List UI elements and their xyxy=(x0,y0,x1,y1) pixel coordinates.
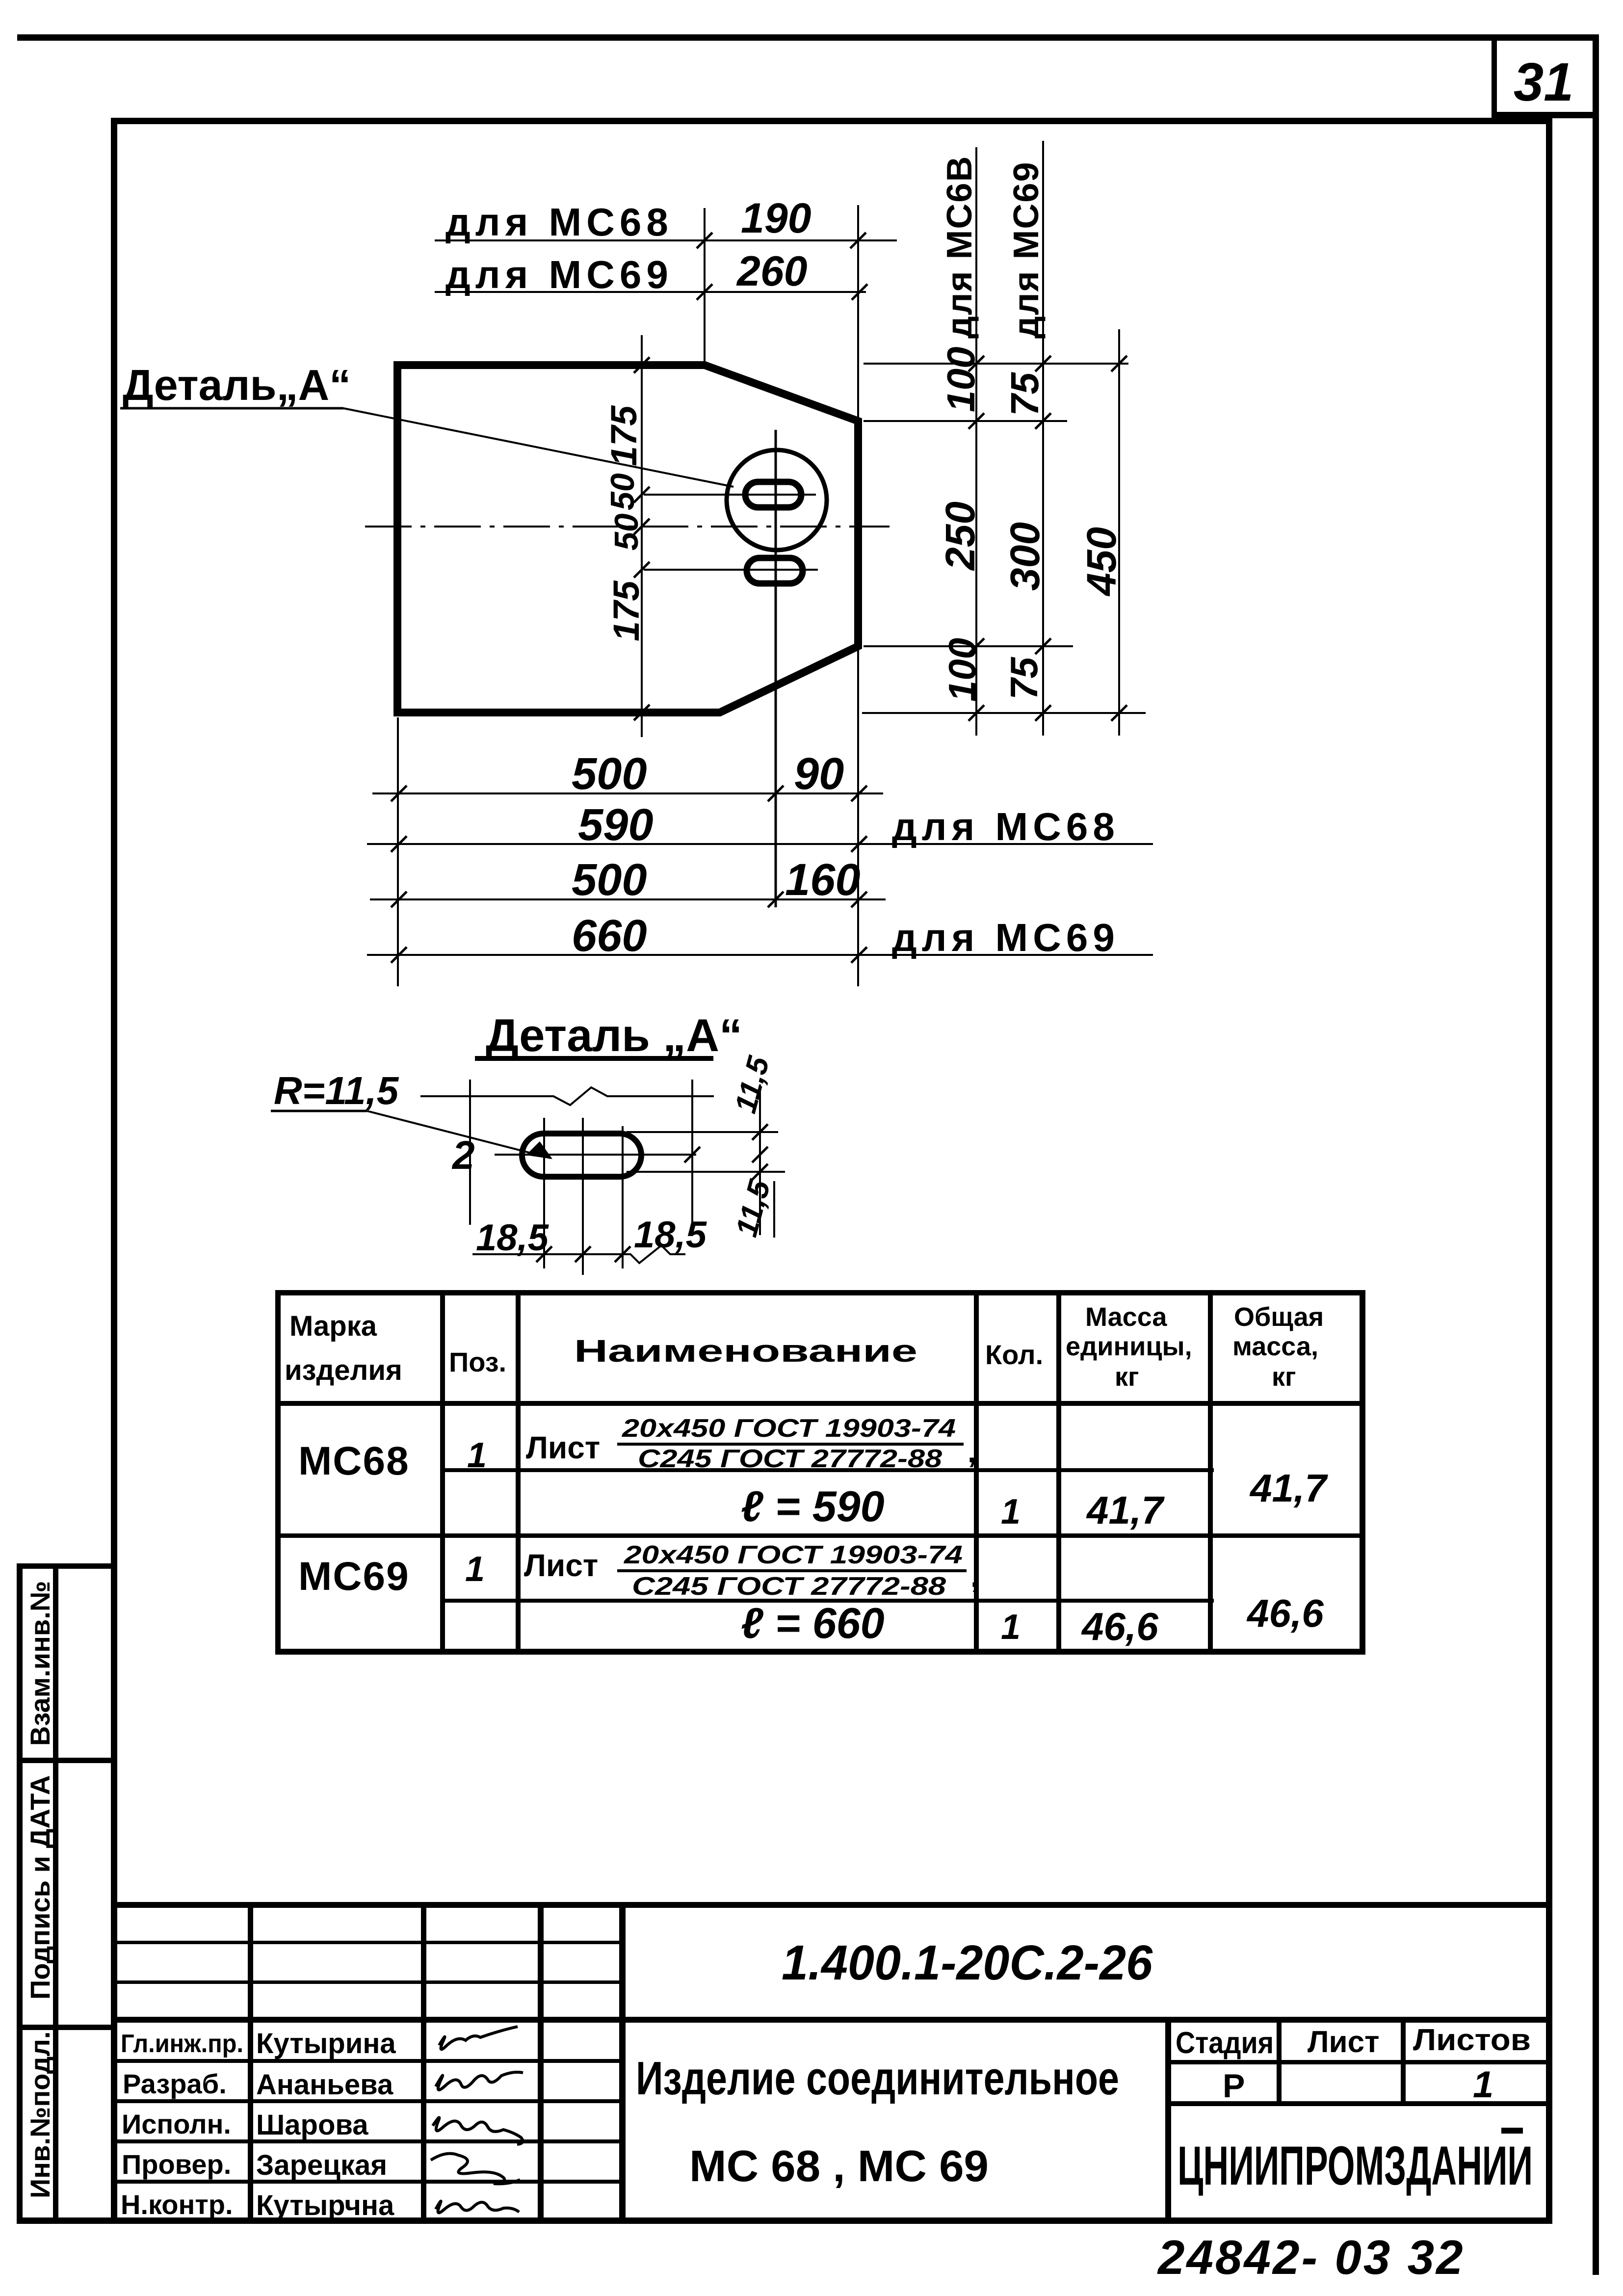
svg-text:500: 500 xyxy=(572,749,647,799)
svg-text:175: 175 xyxy=(603,405,644,466)
fraction bar МС69 xyxy=(617,1569,967,1572)
upper slot extension line xyxy=(644,494,816,496)
right dim line МС69 column xyxy=(1042,141,1044,736)
employee row line 4 xyxy=(117,2180,623,2184)
svg-text:изделия: изделия xyxy=(285,1354,402,1386)
table row line l=590 bottom xyxy=(275,1533,1365,1538)
detail top dim line with break xyxy=(420,1087,714,1105)
right dim line МС68 column xyxy=(975,147,977,736)
lower slot extension line xyxy=(644,569,818,571)
stage row bottom line xyxy=(1168,2101,1546,2106)
extension line right edge up xyxy=(857,205,859,421)
svg-text:46,6: 46,6 xyxy=(1246,1591,1324,1635)
svg-text:Гл.инж.пр.: Гл.инж.пр. xyxy=(121,2030,243,2058)
detail vertical line left arc center xyxy=(543,1118,545,1268)
svg-text:Стадия: Стадия xyxy=(1176,2026,1274,2060)
svg-text:20х450 ГОСТ 19903-74: 20х450 ГОСТ 19903-74 xyxy=(622,1414,956,1443)
svg-text:100: 100 xyxy=(939,347,983,412)
svg-text:Масса: Масса xyxy=(1085,1302,1167,1332)
main frame top xyxy=(111,118,1552,124)
internal vertical dimension line xyxy=(641,335,643,737)
svg-text:46,6: 46,6 xyxy=(1081,1605,1158,1648)
svg-text:ℓ = 660: ℓ = 660 xyxy=(741,1599,885,1647)
svg-text:41,7: 41,7 xyxy=(1086,1488,1165,1532)
right extension line top edge xyxy=(864,363,1128,365)
svg-text:МС 68 , МС 69: МС 68 , МС 69 xyxy=(689,2142,989,2191)
table column Наименование|Кол xyxy=(974,1290,979,1655)
title block thin row line 2 xyxy=(117,1980,623,1984)
right extension line bevel end xyxy=(864,420,1067,422)
svg-text:1: 1 xyxy=(467,1436,487,1475)
svg-text:Марка: Марка xyxy=(289,1310,377,1342)
title block vertical divider names|signatures xyxy=(421,1905,426,2220)
right extension line bottom edge xyxy=(862,712,1146,714)
vertical slot axis line xyxy=(775,430,777,907)
svg-text:Кутырчна: Кутырчна xyxy=(256,2190,394,2221)
signature 1 xyxy=(439,2027,518,2049)
employee row line 2 xyxy=(117,2099,623,2103)
detail right ext line slot bottom xyxy=(627,1171,785,1173)
svg-text:Изделие соединительное: Изделие соединительное xyxy=(636,2052,1119,2105)
underline of lower 11,5 xyxy=(773,1181,775,1238)
svg-text:250: 250 xyxy=(937,501,983,571)
table column Поз|Наименование xyxy=(516,1290,521,1655)
svg-text:31: 31 xyxy=(1514,52,1573,112)
svg-text:Ананьева: Ананьева xyxy=(256,2069,393,2101)
title block vertical divider signatures|dates xyxy=(538,1905,544,2220)
leader line to circle xyxy=(343,408,733,487)
svg-text:2: 2 xyxy=(451,1133,475,1178)
svg-text:Листов: Листов xyxy=(1413,2023,1531,2057)
svg-text:Провер.: Провер. xyxy=(122,2149,231,2180)
svg-text:Деталь„А“: Деталь„А“ xyxy=(123,361,351,409)
svg-text:Взам.инв.№: Взам.инв.№ xyxy=(25,1581,55,1746)
detail title underline xyxy=(475,1056,713,1061)
svg-text:590: 590 xyxy=(578,800,654,850)
svg-text:R=11,5: R=11,5 xyxy=(274,1069,399,1112)
table column Кол|Масса xyxy=(1056,1290,1061,1655)
svg-text:660: 660 xyxy=(572,911,647,961)
title block vertical divider roles|names xyxy=(248,1905,253,2220)
detail vertical line slot center xyxy=(582,1118,584,1275)
detail right extension line xyxy=(691,1080,693,1222)
svg-text:кг: кг xyxy=(1272,1362,1296,1392)
detail A circle xyxy=(727,450,827,550)
svg-text:1.400.1-20С.2-26: 1.400.1-20С.2-26 xyxy=(782,1935,1153,1990)
svg-text:20х450 ГОСТ 19903-74: 20х450 ГОСТ 19903-74 xyxy=(624,1541,963,1569)
svg-text:,: , xyxy=(970,1558,979,1594)
svg-text:Исполн.: Исполн. xyxy=(122,2109,231,2139)
svg-text:,: , xyxy=(968,1434,976,1469)
svg-text:50: 50 xyxy=(608,513,645,551)
svg-text:500: 500 xyxy=(572,855,647,905)
upper slot hole xyxy=(745,482,801,507)
stage box divider Изделие|Стадия xyxy=(1165,2017,1171,2220)
bottom extension line left edge xyxy=(397,717,399,986)
table outer bottom xyxy=(275,1649,1365,1655)
bottom dim line 660 xyxy=(367,954,1153,956)
svg-text:ЦНИИПРОМЗДАНИИ: ЦНИИПРОМЗДАНИИ xyxy=(1178,2135,1533,2196)
svg-text:1: 1 xyxy=(1473,2064,1493,2106)
svg-text:1: 1 xyxy=(1001,1608,1021,1647)
left column top edge xyxy=(17,1563,117,1569)
svg-text:для МС68: для МС68 xyxy=(445,200,673,244)
svg-text:260: 260 xyxy=(736,248,808,295)
top dim line для МС68 190 xyxy=(435,239,897,241)
svg-text:Лист: Лист xyxy=(524,1548,598,1583)
svg-text:100: 100 xyxy=(941,638,984,702)
detail slot horizontal centerline xyxy=(495,1154,696,1156)
svg-text:для МС69: для МС69 xyxy=(892,916,1120,959)
svg-text:160: 160 xyxy=(785,855,861,905)
designation box left edge xyxy=(619,1905,626,2220)
signature 2 xyxy=(436,2072,523,2090)
svg-text:300: 300 xyxy=(1002,522,1048,591)
table column Марка|Поз xyxy=(440,1290,445,1655)
svg-text:Н.контр.: Н.контр. xyxy=(121,2189,233,2220)
signature 4 xyxy=(431,2154,520,2184)
R label underline xyxy=(271,1110,367,1112)
svg-text:кг: кг xyxy=(1115,1362,1139,1392)
table header bottom line xyxy=(275,1401,1365,1406)
svg-text:С245 ГОСТ 27772-88: С245 ГОСТ 27772-88 xyxy=(632,1572,946,1601)
left column outer left edge xyxy=(17,1563,23,2224)
svg-text:для МС68: для МС68 xyxy=(892,805,1120,848)
main frame left xyxy=(111,118,117,2224)
svg-text:1: 1 xyxy=(465,1550,485,1589)
stage header bottom line xyxy=(1168,2060,1546,2064)
svg-text:Разраб.: Разраб. xyxy=(123,2068,227,2099)
svg-text:МС69: МС69 xyxy=(298,1554,410,1599)
svg-text:190: 190 xyxy=(741,195,811,242)
left column divider horizontal 1 xyxy=(17,1758,117,1763)
svg-text:41,7: 41,7 xyxy=(1249,1466,1328,1510)
detail right dim line 11,5 xyxy=(759,1084,761,1235)
svg-text:Лист: Лист xyxy=(526,1430,600,1465)
svg-text:Подпись и ДАТА: Подпись и ДАТА xyxy=(25,1775,55,2000)
svg-text:для МС6В: для МС6В xyxy=(940,156,979,339)
page number box 31 bottom edge xyxy=(1492,112,1599,118)
table partial row line MC69 xyxy=(443,1599,1214,1603)
svg-text:единицы,: единицы, xyxy=(1066,1332,1192,1361)
bottom dim line 590 xyxy=(367,843,1153,845)
detail slot xyxy=(522,1134,641,1177)
employee row line 1 xyxy=(117,2059,623,2063)
table outer top xyxy=(275,1290,1365,1295)
title block line under designation box xyxy=(117,2017,1546,2023)
horizontal centerline xyxy=(365,526,890,528)
svg-text:МС68: МС68 xyxy=(298,1439,410,1483)
table column Масса|Общая xyxy=(1208,1290,1213,1655)
top page border line xyxy=(17,34,1598,41)
title block top line xyxy=(117,1902,1546,1908)
svg-text:450: 450 xyxy=(1078,527,1125,597)
table outer right xyxy=(1360,1290,1365,1655)
bottom dim line 500 90 xyxy=(372,792,883,794)
main frame bottom xyxy=(17,2217,1552,2224)
right page border line xyxy=(1593,34,1599,2275)
svg-text:24842- 03 32: 24842- 03 32 xyxy=(1157,2230,1465,2284)
detail right ext line slot top xyxy=(627,1131,778,1133)
left column inner divider vertical xyxy=(53,1563,58,2224)
bottom dim line 500 160 xyxy=(370,898,886,900)
stage box divider Лист|Листов xyxy=(1401,2017,1406,2105)
svg-text:ℓ = 590: ℓ = 590 xyxy=(741,1482,885,1531)
detail vertical line right arc center xyxy=(622,1126,624,1268)
svg-text:С245 ГОСТ 27772-88: С245 ГОСТ 27772-88 xyxy=(638,1445,942,1473)
signature 3 xyxy=(433,2117,523,2144)
svg-text:Инв.№подл.: Инв.№подл. xyxy=(25,2032,55,2198)
svg-text:90: 90 xyxy=(794,749,844,799)
svg-text:Кол.: Кол. xyxy=(985,1339,1043,1370)
stage box divider Стадия|Лист xyxy=(1277,2017,1282,2105)
svg-text:Зарецкая: Зарецкая xyxy=(256,2149,387,2181)
table partial row line MC68 xyxy=(443,1468,1214,1472)
top dim line для МС69 260 xyxy=(435,291,866,293)
ticks on internal dim line xyxy=(634,357,650,373)
detail left extension line xyxy=(469,1080,471,1225)
svg-text:Лист: Лист xyxy=(1308,2025,1379,2059)
svg-text:для МС69: для МС69 xyxy=(445,253,673,296)
R leader line with arrow xyxy=(367,1111,550,1158)
svg-text:75: 75 xyxy=(1003,372,1047,416)
svg-text:175: 175 xyxy=(606,580,647,641)
table outer left xyxy=(275,1290,281,1655)
detail bottom dim line with break xyxy=(472,1245,685,1263)
signature 5 xyxy=(436,2201,519,2213)
svg-text:50: 50 xyxy=(604,473,641,510)
fraction bar МС68 xyxy=(617,1443,964,1446)
svg-text:масса,: масса, xyxy=(1232,1332,1318,1361)
main frame right xyxy=(1546,118,1552,2224)
svg-text:18,5: 18,5 xyxy=(476,1217,550,1259)
svg-text:для МС69: для МС69 xyxy=(1007,161,1046,339)
svg-text:18,5: 18,5 xyxy=(634,1214,707,1256)
svg-text:Кутырина: Кутырина xyxy=(256,2028,396,2059)
macron over last И xyxy=(1501,2128,1523,2134)
employee row line 3 xyxy=(117,2139,623,2143)
svg-text:Р: Р xyxy=(1223,2067,1245,2105)
tick at right end of centerline xyxy=(684,1147,700,1162)
svg-text:Поз.: Поз. xyxy=(449,1346,506,1377)
lower slot hole xyxy=(747,558,803,583)
right extension line lower bevel start xyxy=(864,645,1073,647)
title block thin row line 1 xyxy=(117,1941,623,1944)
svg-text:Наименование: Наименование xyxy=(574,1333,917,1369)
right dim line 450 xyxy=(1118,329,1120,736)
svg-text:1: 1 xyxy=(1001,1492,1021,1531)
svg-text:Шарова: Шарова xyxy=(256,2109,368,2141)
svg-text:Деталь „А“: Деталь „А“ xyxy=(486,1009,742,1061)
left column divider horizontal 2 xyxy=(17,2025,117,2030)
extension line top kink xyxy=(704,208,706,365)
svg-text:Общая: Общая xyxy=(1234,1302,1324,1332)
page number box 31 left edge xyxy=(1492,34,1497,118)
plate outline xyxy=(397,365,858,713)
extension line right edge down xyxy=(857,646,859,986)
svg-text:75: 75 xyxy=(1002,657,1046,700)
